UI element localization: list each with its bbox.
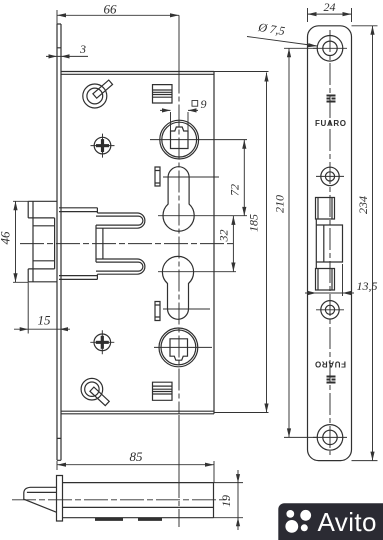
3 arrows outside bbox=[49, 54, 58, 58]
arrowheads front dims bbox=[13, 13, 268, 412]
7.5 leader arrow bbox=[308, 43, 318, 47]
strip screw bottom bbox=[317, 425, 343, 451]
svg-text:46: 46 bbox=[0, 231, 13, 245]
follower lower bbox=[159, 328, 198, 367]
dim 19 bbox=[214, 470, 244, 530]
dim 210 bbox=[284, 48, 318, 437]
knob lower (snib lever) bbox=[81, 378, 109, 405]
15 arrows outside bbox=[20, 327, 29, 331]
bolt tail prong lower bbox=[59, 259, 145, 279]
svg-text:66: 66 bbox=[104, 2, 118, 17]
svg-text:3: 3 bbox=[79, 42, 86, 56]
bolt tail prong upper bbox=[59, 208, 145, 228]
85 arrows bbox=[57, 463, 66, 467]
svg-text:FUARO: FUARO bbox=[315, 360, 346, 369]
dim 24 bbox=[308, 8, 352, 22]
follower lower crosshair bbox=[154, 346, 212, 348]
strip centerline bbox=[313, 30, 347, 455]
spring box upper bbox=[153, 85, 173, 103]
dim 46 line bbox=[13, 201, 28, 282]
svg-text:9: 9 bbox=[201, 97, 207, 111]
svg-text:19: 19 bbox=[219, 495, 233, 507]
svg-text:FUARO: FUARO bbox=[315, 119, 346, 128]
svg-text:24: 24 bbox=[324, 0, 336, 14]
dim 66 line bbox=[57, 10, 179, 24]
46 arrows bbox=[13, 201, 17, 210]
strip outline bbox=[308, 26, 352, 461]
bottom view centerline bbox=[12, 499, 230, 501]
square9 arrows outside bbox=[162, 108, 171, 112]
svg-text:210: 210 bbox=[273, 195, 287, 213]
svg-text:185: 185 bbox=[247, 214, 261, 232]
square symbol for 9 dim bbox=[192, 101, 198, 107]
210 arrows bbox=[287, 48, 291, 57]
side bracket lower bbox=[316, 269, 335, 291]
strip screw top bbox=[317, 36, 343, 62]
svg-text:32: 32 bbox=[217, 230, 231, 243]
phillips cross bars bbox=[96, 139, 109, 349]
deadbolt head bbox=[28, 201, 56, 281]
dim 72 line bbox=[243, 140, 245, 216]
screw upper (phillips) bbox=[94, 137, 111, 154]
dim 3 line bbox=[46, 55, 88, 57]
follower upper (square 9mm hub) bbox=[160, 120, 199, 159]
dim 32 line bbox=[232, 216, 234, 272]
dim 15 lines bbox=[14, 282, 70, 470]
FUARO logo top bbox=[327, 95, 336, 103]
FUARO logo bottom bbox=[327, 376, 336, 384]
cylinder upper crosshair bbox=[158, 215, 247, 217]
dim 234 bbox=[352, 26, 378, 461]
32 arrows bbox=[231, 216, 235, 225]
dims right view bbox=[247, 8, 378, 461]
svg-text:13,5: 13,5 bbox=[357, 279, 378, 293]
keyhole upper (euro cylinder) bbox=[163, 167, 194, 232]
dim 185 line bbox=[214, 72, 269, 413]
screw upper crosshair bbox=[91, 134, 115, 158]
centerlines bbox=[20, 15, 247, 527]
24 arrows bbox=[308, 12, 317, 16]
svg-text:15: 15 bbox=[38, 313, 52, 328]
faceplate bar top view bbox=[57, 476, 63, 522]
side housing middle bbox=[316, 219, 342, 269]
knob upper (snib lever) bbox=[83, 80, 113, 108]
svg-text:85: 85 bbox=[130, 449, 144, 464]
vertical axis through followers bbox=[178, 15, 180, 71]
case tabs bottom bbox=[95, 518, 162, 521]
strip screw middle lower bbox=[321, 301, 339, 319]
svg-text:72: 72 bbox=[228, 184, 242, 196]
72 arrows bbox=[242, 140, 246, 149]
case band top view bbox=[63, 483, 214, 518]
dim 13.5 bbox=[305, 264, 354, 296]
svg-text:Avito: Avito bbox=[318, 507, 377, 537]
screw lower (phillips) bbox=[94, 334, 111, 351]
keyhole lower small circle crosshair bbox=[163, 308, 210, 310]
234 arrows bbox=[370, 26, 374, 35]
dim square9 lines bbox=[160, 110, 198, 131]
13.5 arrows outside bbox=[308, 291, 317, 295]
side bracket upper bbox=[316, 198, 335, 220]
latch top view bbox=[24, 487, 57, 512]
19 arrows outside bbox=[236, 474, 240, 483]
dims bottom view bbox=[57, 461, 243, 530]
keyhole upper small circle crosshair bbox=[163, 176, 219, 178]
66 arrows bbox=[57, 13, 66, 17]
detent pin lower bbox=[155, 302, 160, 321]
dim texts front bbox=[0, 2, 261, 328]
follower upper crosshair bbox=[150, 139, 247, 141]
spring box lower bbox=[153, 382, 173, 400]
lock case outline bbox=[61, 72, 214, 414]
fork root verticals bbox=[96, 225, 103, 262]
185 arrows bbox=[264, 73, 268, 82]
svg-text:234: 234 bbox=[356, 196, 370, 214]
horizontal axis of lock bbox=[20, 243, 233, 245]
screw lower crosshair bbox=[90, 330, 114, 354]
dim 85 bbox=[57, 461, 214, 483]
strip screw middle upper bbox=[321, 167, 339, 185]
faceplate front view bbox=[57, 24, 61, 460]
avito logo dots bbox=[285, 510, 311, 533]
cylinder lower crosshair bbox=[158, 271, 236, 273]
leader 7.5 bbox=[247, 37, 317, 47]
detent pin upper bbox=[155, 167, 160, 186]
keyhole lower (euro cylinder inverted) bbox=[162, 256, 193, 319]
